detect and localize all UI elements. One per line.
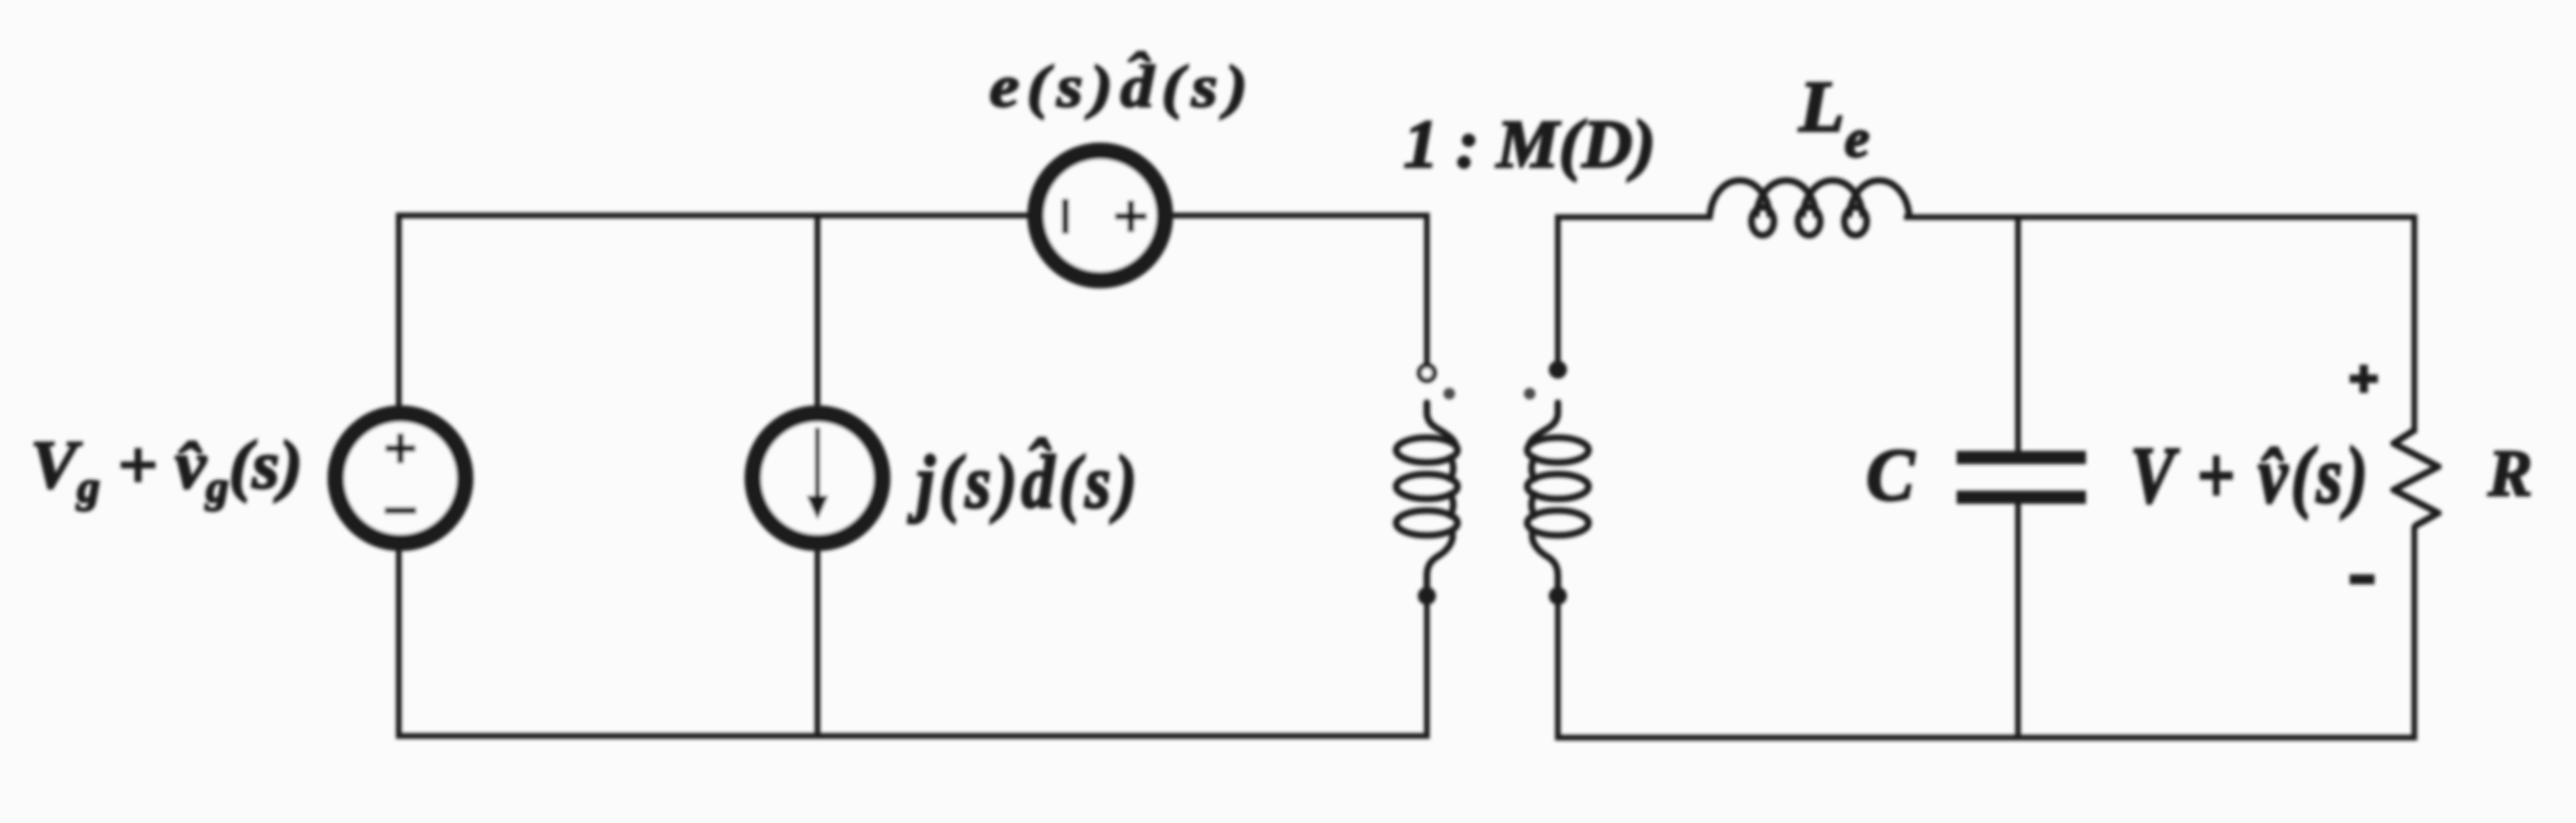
svg-text:C: C xyxy=(1866,434,1916,517)
svg-text:Vg + v̂g(s): Vg + v̂g(s) xyxy=(31,428,303,511)
label V + v(s) xyxy=(2130,431,2370,520)
wire bottom-left horizontal segment xyxy=(399,733,1427,739)
svg-text:R: R xyxy=(2487,437,2533,511)
wire top-right segment (transformer to inductor) xyxy=(1558,215,1710,220)
e-source plus sign xyxy=(1115,201,1147,232)
transformer secondary terminal dot xyxy=(1549,361,1567,379)
wire current-source branch upper xyxy=(815,215,821,405)
wire capacitor branch lower xyxy=(2016,503,2021,738)
inductor Le winding xyxy=(1710,181,1909,235)
svg-text:Le: Le xyxy=(1798,67,1870,169)
transformer primary polarity dot xyxy=(1443,388,1455,399)
capacitor C top plate xyxy=(1957,451,2086,464)
svg-text:j(s)d̂(s): j(s)d̂(s) xyxy=(907,438,1141,524)
current source arrow xyxy=(807,428,828,520)
wire primary top vertical drop xyxy=(1424,215,1430,365)
label R xyxy=(2487,437,2533,511)
wire top-middle segment (e-source to primary) xyxy=(1167,213,1427,219)
label j(s)d(s) xyxy=(907,438,1141,524)
label e(s)d(s) xyxy=(989,52,1254,120)
voltage source Vg minus sign xyxy=(385,507,416,514)
wire right vertical lower (from resistor) xyxy=(2412,528,2418,738)
wire primary bottom vertical xyxy=(1424,590,1430,736)
transformer secondary polarity dot xyxy=(1524,388,1535,399)
voltage source Vg plus sign xyxy=(386,433,415,463)
transformer primary bottom junction dot xyxy=(1418,587,1436,605)
wire top-left horizontal segment xyxy=(399,213,1033,219)
wire secondary top vertical rise xyxy=(1555,217,1561,362)
wire right vertical upper (to resistor) xyxy=(2412,217,2418,430)
wire top-right segment (inductor to load corner) xyxy=(1907,215,2414,220)
transformer secondary winding xyxy=(1527,403,1589,590)
transformer primary terminal ring xyxy=(1419,366,1434,380)
output plus sign xyxy=(2350,365,2378,393)
wire current-source branch lower xyxy=(815,551,821,736)
svg-text:e(s)d̂(s): e(s)d̂(s) xyxy=(989,52,1254,120)
label Le xyxy=(1798,67,1870,169)
voltage source Vg circle xyxy=(336,414,465,543)
resistor R zigzag xyxy=(2394,430,2438,526)
wire capacitor branch upper xyxy=(2016,217,2021,452)
wire left vertical upper xyxy=(396,215,402,405)
capacitor C bottom plate xyxy=(1957,491,2086,504)
e-source minus bar xyxy=(1062,199,1069,234)
transformer secondary bottom junction dot xyxy=(1549,587,1567,605)
wire left vertical lower xyxy=(396,551,402,736)
label 1 : M(D) xyxy=(1404,107,1656,182)
label Vg + vg(s) xyxy=(31,428,303,511)
svg-text:1 : M(D): 1 : M(D) xyxy=(1404,107,1656,182)
wire secondary bottom vertical xyxy=(1555,590,1561,738)
label C xyxy=(1866,434,1916,517)
output minus sign xyxy=(2350,574,2375,584)
dependent voltage source e(s)d(s) circle xyxy=(1036,151,1165,280)
wire bottom-right horizontal segment xyxy=(1558,735,2414,741)
svg-text:V + v̂(s): V + v̂(s) xyxy=(2130,431,2370,520)
transformer primary winding xyxy=(1396,403,1458,590)
current source j(s)d(s) circle xyxy=(753,414,882,543)
